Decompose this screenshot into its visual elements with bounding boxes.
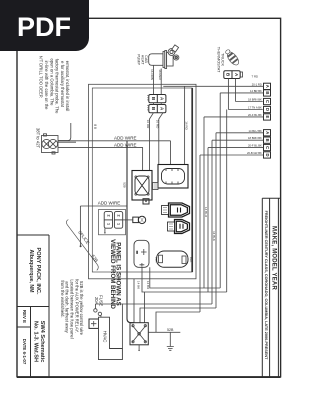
svg-text:N'T DRILL TOO DEEP.: N'T DRILL TOO DEEP.	[39, 56, 44, 98]
svg-text:B: B	[265, 139, 270, 142]
svg-text:VIEWED FROM BEHIND: VIEWED FROM BEHIND	[109, 239, 116, 309]
svg-text:REV E: REV E	[22, 310, 27, 323]
svg-text:ADD WIRE: ADD WIRE	[98, 200, 121, 205]
svg-text:factory thermostat probe. The: factory thermostat probe. The	[55, 59, 60, 115]
svg-text:18 BRN BK: 18 BRN BK	[248, 98, 262, 102]
svg-text:16 OR: 16 OR	[146, 120, 150, 130]
svg-text:20-1 RD: 20-1 RD	[252, 82, 262, 86]
svg-text:17 TN A BK: 17 TN A BK	[248, 106, 262, 110]
svg-text:52B: 52B	[167, 328, 174, 332]
svg-text:D: D	[265, 108, 270, 111]
svg-text:2: 2	[117, 215, 121, 217]
svg-text:in-line with the core on the: in-line with the core on the	[44, 61, 49, 111]
svg-text:DATE 6-1-07: DATE 6-1-07	[22, 339, 27, 365]
svg-text:16 RED: 16 RED	[158, 69, 162, 80]
svg-text:20-F BL BK: 20-F BL BK	[248, 113, 262, 117]
svg-text:1: 1	[106, 223, 110, 225]
svg-text:B: B	[265, 91, 270, 94]
svg-text:C: C	[265, 146, 270, 149]
svg-text:14 BLU: 14 BLU	[204, 207, 208, 217]
svg-text:E: E	[265, 116, 270, 119]
svg-text:SW4 Schematic: SW4 Schematic	[39, 321, 45, 363]
svg-text:PONY PACK, INC.: PONY PACK, INC.	[35, 247, 41, 294]
svg-text:16 RD: 16 RD	[185, 121, 189, 130]
svg-text:16 RD: 16 RD	[155, 120, 159, 129]
svg-text:1: 1	[117, 223, 121, 225]
svg-text:14 BLK: 14 BLK	[212, 231, 216, 241]
svg-text:THERMOSTAT: THERMOSTAT	[217, 47, 221, 73]
svg-text:No. 1-3. Wat.SH: No. 1-3. Wat.SH	[33, 321, 39, 362]
svg-text:20-B GR BK: 20-B GR BK	[247, 151, 262, 155]
svg-text:8 8: 8 8	[93, 124, 97, 129]
svg-text:14 BK: 14 BK	[137, 281, 141, 289]
svg-text:e for auxiliary thermostat: e for auxiliary thermostat	[60, 61, 65, 108]
svg-text:A: A	[265, 131, 270, 134]
svg-text:52B: 52B	[123, 182, 127, 187]
svg-text:2: 2	[106, 215, 110, 217]
svg-text:14 BR BK: 14 BR BK	[250, 89, 262, 93]
svg-text:T RD: T RD	[252, 75, 258, 79]
svg-text:14 BLU BK: 14 BLU BK	[249, 129, 263, 133]
svg-text:PDF: PDF	[17, 12, 71, 42]
svg-text:open on a Columbia. The: open on a Columbia. The	[49, 59, 54, 107]
svg-text:ermostat, included in install: ermostat, included in install	[65, 61, 70, 112]
svg-text:C: C	[265, 100, 270, 103]
svg-text:HVAC: HVAC	[102, 331, 107, 343]
svg-text:BLK: BLK	[189, 257, 193, 262]
svg-text:PUMP: PUMP	[137, 54, 141, 65]
svg-text:38T to 42T: 38T to 42T	[35, 128, 40, 149]
svg-text:MAKE, MODEL YEAR: MAKE, MODEL YEAR	[270, 226, 276, 290]
svg-text:D: D	[265, 153, 270, 156]
svg-text:18 BRN BK: 18 BRN BK	[248, 136, 262, 140]
svg-text:20-F BL BK: 20-F BL BK	[248, 144, 262, 148]
svg-text:Albuquerque, NM: Albuquerque, NM	[28, 250, 34, 293]
svg-text:FREIGHTLINER CENTURY CLASS, CO: FREIGHTLINER CENTURY CLASS, CORONADO, CO…	[264, 211, 268, 361]
svg-text:from the windshield.: from the windshield.	[60, 280, 65, 317]
svg-text:A: A	[265, 85, 270, 88]
svg-text:20A: 20A	[94, 297, 99, 305]
svg-text:BLK: BLK	[154, 257, 158, 262]
svg-text:ADD WIRE: ADD WIRE	[114, 135, 137, 140]
svg-text:14 BU: 14 BU	[146, 281, 150, 289]
svg-text:ADD WIRE: ADD WIRE	[114, 143, 137, 148]
svg-text:16 ORN: 16 ORN	[150, 69, 154, 80]
